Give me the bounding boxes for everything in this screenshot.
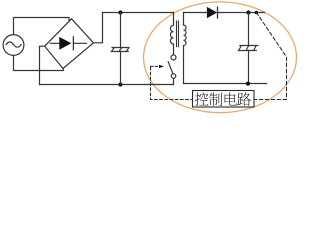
- label text 控制电路: [195, 92, 251, 106]
- wire secondary top rail: [184, 12, 265, 14]
- node junction C2 top: [246, 10, 250, 14]
- node junction C1 bottom: [118, 82, 122, 86]
- transformer T1 core: [177, 21, 179, 47]
- highlight ellipse around switching converter section: [144, 2, 297, 113]
- capacitor C1 hatched plates: [111, 48, 129, 52]
- bridge rectifier diamond: [45, 19, 94, 69]
- wire bottom rail right: [184, 83, 267, 85]
- capacitor C2 leads: [248, 13, 250, 84]
- dashed feedback line from output to control box: [254, 13, 286, 100]
- ac source G1: [3, 35, 24, 56]
- switch S bottom contact: [171, 74, 176, 79]
- dashed line from arrow down to control box: [151, 67, 193, 100]
- switch S top contact: [171, 55, 176, 60]
- switch S lever: [168, 62, 173, 74]
- diode D1 inside bridge: [50, 37, 86, 50]
- transformer T1 primary winding: [170, 13, 173, 55]
- dashed control arrow to switch: [151, 65, 165, 68]
- wire bottom rail left: [40, 84, 174, 86]
- node junction C2 bottom: [246, 82, 250, 86]
- wire ac top to bridge top corner: [14, 18, 70, 35]
- wire dc positive riser and top rail: [94, 13, 174, 43]
- node feedback tap: [255, 11, 259, 15]
- diode D2: [207, 7, 217, 18]
- diode D2 cathode bar: [217, 7, 219, 18]
- capacitor C2 hatched plates: [238, 46, 258, 51]
- capacitor C1 leads: [120, 13, 122, 85]
- node junction C1 top: [118, 10, 122, 14]
- wire dc negative from left corner down: [40, 46, 45, 84]
- wire ac bottom to bridge bottom corner: [14, 55, 64, 70]
- wire switch to bottom rail: [173, 78, 175, 84]
- control box: [193, 91, 255, 108]
- transformer T1 secondary winding: [184, 13, 187, 84]
